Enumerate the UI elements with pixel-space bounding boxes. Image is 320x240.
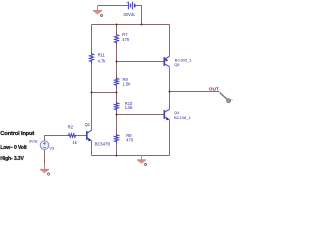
node junction divider mid [115,91,117,93]
svg-text:4.7k: 4.7k [98,59,107,64]
node junction Q4 base divider [115,113,117,115]
resistor R11 [90,53,94,64]
svg-text:V3: V3 [49,146,55,151]
resistor R2 [67,134,76,138]
resistor R7 [115,34,119,45]
node junction R8 ground rail [115,154,117,156]
svg-text:0: 0 [100,13,103,18]
node junction left rail tap [90,91,92,93]
svg-text:R11: R11 [98,53,106,58]
wire right rail bus to Q5 emitter [169,25,171,57]
node OUT junction [168,90,170,92]
svg-text:470: 470 [126,138,134,143]
ground 0 bottom-middle [137,156,146,164]
wire R rail R7 to R9 [116,44,118,77]
transistor Q5 BC303_1 PNP [164,56,169,66]
wire V3 minus to ground [44,150,46,165]
probe marker at OUT [220,92,234,102]
wire +30V bus [92,24,170,26]
wire OUT [170,91,220,93]
voltage source V3 3Vdc [40,141,49,150]
svg-text:Control input: Control input [0,131,34,137]
node junction Q5 base divider [115,60,117,62]
svg-text:30Vdc: 30Vdc [123,12,135,17]
wire battery to bus corner [135,6,142,25]
wire Q1 emitter down [91,141,93,156]
svg-text:Q5: Q5 [174,62,180,67]
node junction bus/battery [140,23,142,25]
wire ground rail bottom [92,155,170,157]
svg-text:3Vdc: 3Vdc [29,139,38,144]
svg-text:0: 0 [144,162,147,167]
svg-text:Q1: Q1 [85,122,91,127]
wire left rail bus to R11 [91,25,93,53]
wire Q4 base [117,114,165,116]
transistor Q4 BC108_1 NPN [164,109,169,121]
svg-text:High- 3.3V: High- 3.3V [0,156,24,162]
resistor R10 [115,102,119,112]
wire R rail bus to R7 [116,25,118,34]
wire R rail R10 to R8 [116,111,118,134]
ground 0 below V3 [40,165,49,173]
svg-text:OUT: OUT [209,87,219,93]
svg-text:470: 470 [122,37,130,42]
svg-text:1.5k: 1.5k [125,105,134,110]
battery V1 30Vdc [127,2,135,10]
ground 0 top-left [93,6,102,15]
svg-text:R2: R2 [68,124,74,129]
resistor R9 [115,77,119,87]
wire R rail R8 to ground rail [116,143,118,156]
wire R2 to Q1 base [77,135,87,137]
wire top from ground to battery [98,5,129,7]
wire Q5 collector to Q4 collector [169,67,171,110]
svg-text:0: 0 [47,172,50,177]
wire R rail R9 to R10 [116,87,118,102]
svg-text:Low– 0 Volt: Low– 0 Volt [0,145,27,151]
svg-text:BC547B: BC547B [95,142,111,147]
wire divider tap to left rail [92,92,117,94]
wire Q4 emitter down [169,120,171,156]
wire Q5 base [117,61,165,63]
transistor Q1 BC547B NPN [87,130,92,142]
wire left rail R11 to Q1 collector [91,63,93,130]
node junction bus/R7 [115,23,117,25]
resistor R8 [115,134,119,144]
wire V3 plus to R2 [45,136,68,141]
svg-text:BC108_1: BC108_1 [174,115,191,120]
svg-text:1.5k: 1.5k [123,82,132,87]
